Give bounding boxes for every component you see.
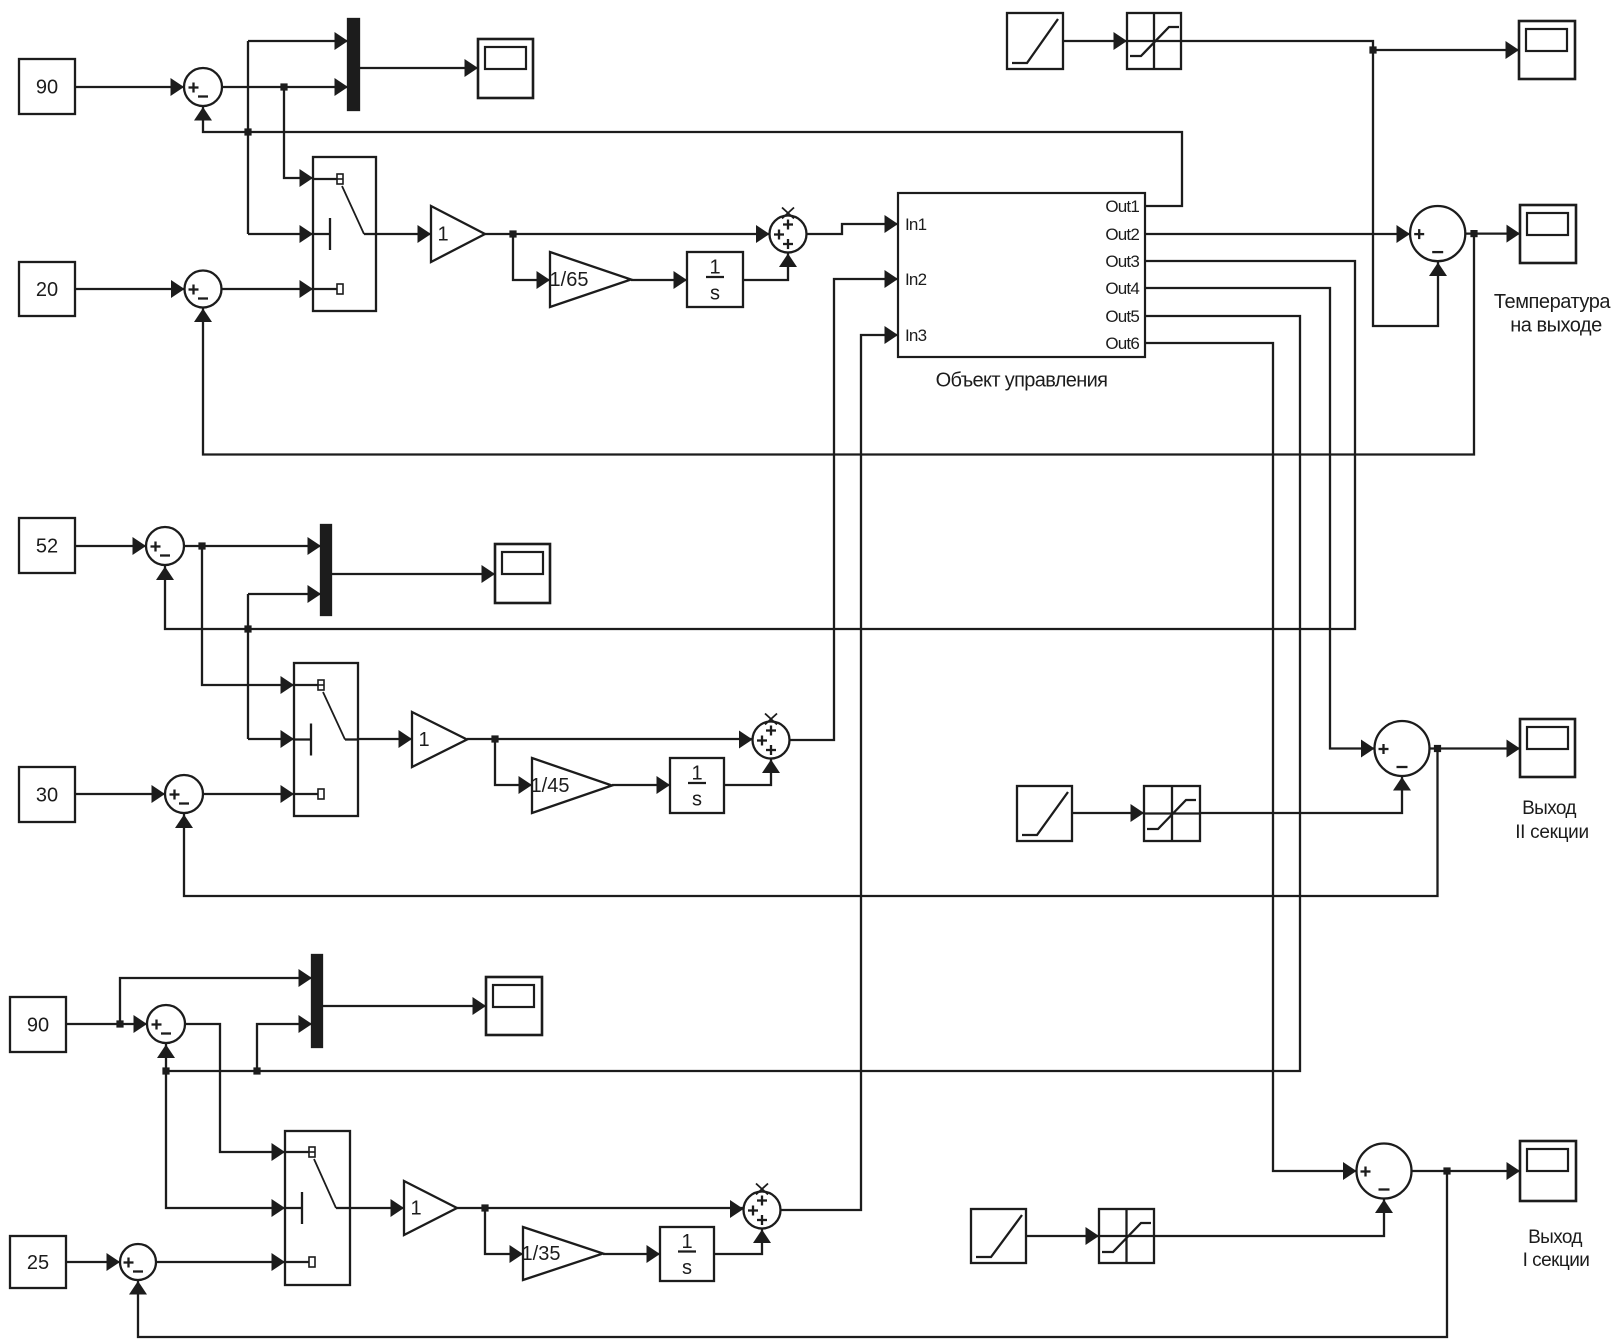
svg-text:Объект управления: Объект управления [936,370,1108,392]
svg-text:30: 30 [36,785,58,807]
svg-text:s: s [692,789,702,811]
svg-text:90: 90 [36,77,58,99]
svg-text:Out2: Out2 [1105,225,1139,244]
svg-text:90: 90 [27,1015,49,1037]
svg-text:52: 52 [36,536,58,558]
svg-text:1: 1 [437,224,448,246]
svg-text:s: s [682,1257,692,1279]
svg-text:1/45: 1/45 [531,775,570,797]
svg-text:Выход: Выход [1528,1227,1582,1248]
svg-text:1: 1 [418,729,429,751]
svg-text:In3: In3 [905,326,927,345]
svg-text:Out4: Out4 [1105,279,1139,298]
svg-text:Out1: Out1 [1105,197,1139,216]
svg-text:Out3: Out3 [1105,252,1139,271]
svg-text:Температура: Температура [1494,291,1612,313]
svg-text:20: 20 [36,279,58,301]
svg-text:Out6: Out6 [1105,334,1139,353]
svg-text:на выходе: на выходе [1510,315,1602,337]
svg-text:1: 1 [681,1231,692,1253]
svg-text:25: 25 [27,1252,49,1274]
svg-text:1: 1 [410,1198,421,1220]
svg-text:In2: In2 [905,270,927,289]
svg-text:In1: In1 [905,215,927,234]
svg-text:Выход: Выход [1522,798,1576,819]
svg-text:I секции: I секции [1523,1250,1590,1271]
svg-text:Out5: Out5 [1105,307,1139,326]
svg-text:II секции: II секции [1515,822,1589,843]
svg-text:1/35: 1/35 [522,1243,561,1265]
svg-text:1: 1 [691,763,702,785]
svg-text:1/65: 1/65 [550,269,589,291]
svg-text:1: 1 [709,257,720,279]
svg-text:s: s [710,283,720,305]
